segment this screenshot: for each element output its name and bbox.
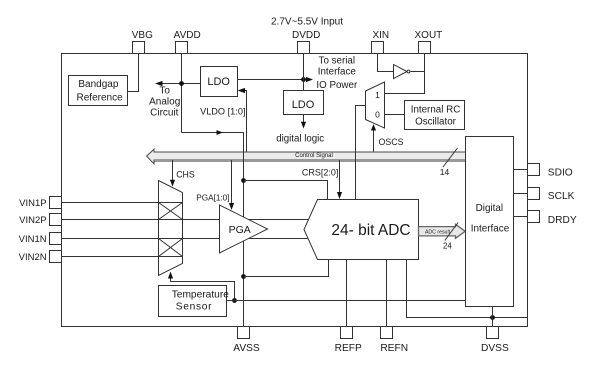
svg-text:Temperature: Temperature — [172, 290, 230, 301]
wire REFP — [346, 260, 348, 327]
wire clock line crossing bus — [355, 152, 357, 163]
svg-text:Interface: Interface — [318, 67, 357, 78]
svg-text:Circuit: Circuit — [150, 108, 179, 119]
pin VIN1P — [50, 197, 62, 209]
svg-text:VLDO [1:0]: VLDO [1:0] — [200, 106, 245, 116]
wire VIN2P — [62, 219, 159, 221]
node temp sensor junction — [232, 298, 237, 303]
svg-text:1: 1 — [375, 90, 380, 100]
control signal bus — [147, 149, 466, 164]
pin SCLK — [528, 188, 540, 200]
node AVDD junction — [179, 81, 184, 86]
wire XOUT vertical to mux input 1 — [385, 54, 425, 94]
svg-text:14: 14 — [440, 167, 450, 177]
pin XOUT — [419, 42, 431, 54]
node LDO1out-DVDD junction — [301, 77, 306, 82]
wire mux outputs to ADC — [183, 219, 311, 221]
svg-text:SDIO: SDIO — [548, 167, 573, 178]
pin REFN — [381, 327, 393, 339]
block Digital Interface — [466, 137, 514, 307]
svg-text:VBG: VBG — [132, 30, 153, 41]
block Temperature Sensor — [159, 286, 227, 317]
pin VIN2N — [50, 251, 62, 263]
pin DVDD — [298, 42, 310, 54]
svg-text:SCLK: SCLK — [548, 191, 575, 202]
wire SDIO — [514, 169, 528, 171]
wire inverter output to XOUT — [411, 71, 425, 73]
svg-text:VIN1P: VIN1P — [19, 198, 46, 209]
svg-text:Analog: Analog — [149, 97, 180, 108]
svg-text:24- bit ADC: 24- bit ADC — [331, 222, 410, 239]
wire SCLK — [514, 193, 528, 195]
block Internal RC Oscillator — [405, 101, 465, 130]
clock mux OSCS — [366, 82, 385, 128]
inverter crystal buffer — [394, 65, 408, 79]
svg-text:To: To — [159, 85, 170, 96]
node rail-ADC-top junction — [241, 178, 246, 183]
pin VIN1N — [50, 233, 62, 245]
wire DVDD vertical — [303, 54, 305, 91]
wire ADC to DVSS rail — [407, 260, 528, 318]
wire PGA control arrow — [231, 160, 233, 205]
wire VIN1N — [62, 238, 159, 240]
svg-text:CRS[2:0]: CRS[2:0] — [302, 167, 339, 177]
svg-text:DVSS: DVSS — [481, 343, 509, 354]
svg-text:0: 0 — [375, 110, 380, 120]
wire LDO1 output to DVDD net — [238, 79, 307, 81]
wire AVDD to LDO and To-Analog arrow — [162, 83, 201, 85]
svg-text:Internal RC: Internal RC — [411, 105, 461, 116]
svg-text:Reference: Reference — [77, 92, 124, 103]
pin DVSS — [487, 327, 499, 339]
pin SDIO — [528, 164, 540, 176]
svg-text:Digital: Digital — [476, 203, 503, 214]
wire RC oscillator to mux input 0 — [385, 114, 405, 116]
wire temperature sensor to input mux — [171, 278, 235, 301]
wire LDO2 output to digital logic — [303, 115, 305, 124]
pin VBG — [133, 42, 145, 54]
wire VBG net — [128, 54, 139, 92]
svg-text:VIN2N: VIN2N — [19, 252, 47, 263]
svg-text:IO Power: IO Power — [316, 80, 358, 91]
svg-text:LDO: LDO — [292, 99, 315, 111]
bus width slash 14 — [443, 148, 458, 167]
wire VIN2N — [62, 256, 159, 258]
wire REFN — [386, 260, 388, 327]
svg-text:Interface: Interface — [471, 223, 510, 234]
svg-text:REFN: REFN — [380, 343, 408, 354]
svg-text:AVDD: AVDD — [174, 30, 201, 41]
block Bandgap Reference — [69, 76, 128, 106]
wire analog power rail down to AVSS — [182, 133, 244, 327]
svg-text:PGA[1:0]: PGA[1:0] — [196, 193, 229, 202]
wire CHS control arrow — [172, 160, 174, 181]
pin DRDY — [528, 211, 540, 223]
node rail-ADC-bottom junction — [241, 274, 246, 279]
svg-text:XIN: XIN — [372, 30, 389, 41]
svg-text:CHS: CHS — [176, 169, 195, 179]
svg-text:VIN1N: VIN1N — [19, 234, 47, 245]
svg-text:LDO: LDO — [207, 76, 230, 88]
ADC result bus arrow — [419, 224, 466, 238]
wire clock mux output to ADC — [356, 106, 366, 200]
pin REFP — [341, 327, 353, 339]
svg-text:Bandgap: Bandgap — [78, 79, 118, 90]
wire DRDY — [514, 216, 528, 218]
pin AVSS — [238, 327, 250, 339]
wire analog rail crossing bus — [243, 152, 245, 163]
svg-text:AVSS: AVSS — [233, 343, 260, 354]
arrowhead on analog rail — [217, 130, 224, 135]
wire rail to ADC bottom — [244, 260, 329, 277]
wire digital interface to DVSS pin — [492, 307, 494, 327]
pin XIN — [372, 42, 384, 54]
svg-text:PGA: PGA — [229, 224, 251, 236]
svg-text:REFP: REFP — [335, 343, 362, 354]
wire OSCS control from bus — [373, 129, 375, 152]
wire CRS control arrow — [339, 160, 341, 194]
svg-text:VIN2P: VIN2P — [19, 215, 46, 226]
wire VIN1P — [62, 202, 159, 204]
svg-text:Oscillator: Oscillator — [415, 116, 457, 127]
wire XIN to inverter — [378, 54, 394, 72]
wire temp sensor output line to digital interface — [227, 300, 466, 302]
svg-text:DVDD: DVDD — [292, 30, 320, 41]
svg-text:Control Signal: Control Signal — [295, 153, 333, 159]
wire AVDD vertical — [181, 54, 183, 133]
input mux CHS — [159, 181, 183, 276]
block LDO analog — [201, 67, 238, 97]
24-bit ADC block — [304, 200, 419, 260]
svg-text:XOUT: XOUT — [415, 30, 443, 41]
svg-text:To serial: To serial — [319, 56, 355, 67]
pin AVDD — [176, 42, 188, 54]
svg-text:24: 24 — [443, 242, 452, 251]
bus width slash 24 — [445, 223, 458, 241]
wire rail to ADC top — [244, 181, 328, 200]
amplifier PGA — [220, 205, 268, 253]
pin VIN2P — [50, 214, 62, 226]
wire VLDO control feedback from bus — [244, 91, 247, 152]
svg-text:Sensor: Sensor — [176, 301, 212, 312]
svg-text:DRDY: DRDY — [548, 215, 577, 226]
node DVSS junction — [490, 315, 495, 320]
svg-text:2.7V~5.5V Input: 2.7V~5.5V Input — [271, 16, 343, 27]
svg-text:digital logic: digital logic — [276, 134, 324, 145]
svg-text:OSCS: OSCS — [379, 137, 404, 147]
outer chip boundary — [62, 54, 528, 327]
svg-text:ADC result: ADC result — [425, 229, 451, 235]
block LDO digital — [284, 91, 324, 115]
